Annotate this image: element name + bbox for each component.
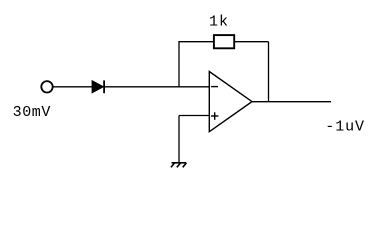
op-amp non-inverting input plus sign <box>211 112 218 120</box>
ground symbol <box>171 163 187 168</box>
wire input to op-amp inverting input <box>53 86 210 88</box>
op-amp inverting input minus sign <box>211 86 218 88</box>
op-amp U1 triangle <box>209 72 252 132</box>
wire feedback left vertical <box>179 42 214 87</box>
diode D1 anode triangle <box>92 81 104 93</box>
input terminal circle <box>41 81 52 92</box>
resistor R1 body <box>214 35 234 48</box>
svg-text:-1uV: -1uV <box>325 119 365 136</box>
wire down to ground <box>178 116 180 163</box>
svg-text:30mV: 30mV <box>13 104 51 121</box>
wire feedback right vertical down to output <box>268 42 270 102</box>
wire output <box>252 101 331 103</box>
wire resistor to feedback right vertical <box>234 41 268 43</box>
diode D1 cathode bar <box>103 80 105 93</box>
wire non-inverting input <box>179 115 209 117</box>
svg-text:1k: 1k <box>209 13 229 30</box>
